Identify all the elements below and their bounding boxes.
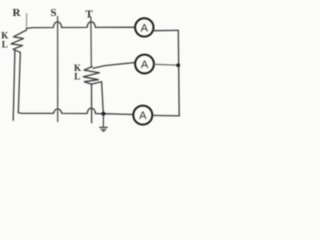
svg-text:S: S xyxy=(50,7,56,19)
wire A1 right to bus xyxy=(153,29,179,31)
ammeter A1 xyxy=(135,18,153,36)
wire CT2 K lead to ammeter A2 xyxy=(93,63,135,69)
wire T phase vertical lower (dangling) xyxy=(91,84,93,123)
ammeter A3 xyxy=(133,106,152,125)
wire CT1 left lead going down (dangling) xyxy=(13,50,15,120)
svg-text:A: A xyxy=(141,22,149,34)
node junction dot on bus at A2 xyxy=(176,63,180,67)
ammeter A2 xyxy=(135,55,154,74)
svg-text:L: L xyxy=(2,40,8,50)
wire S phase vertical xyxy=(57,17,59,122)
svg-text:T: T xyxy=(85,9,93,21)
wire T phase vertical upper xyxy=(90,17,92,67)
wire right bus vertical xyxy=(177,30,180,116)
svg-text:L: L xyxy=(74,71,80,81)
ground symbol xyxy=(100,114,108,131)
svg-text:A: A xyxy=(141,59,149,71)
wire R phase top vertical xyxy=(26,14,28,31)
wire CT2 L lead down to ground junction xyxy=(91,82,103,114)
current transformer CT2 secondary winding (zigzag) xyxy=(83,67,99,85)
svg-text:R: R xyxy=(13,7,22,19)
wire A3 right to bus xyxy=(153,114,180,117)
wire CT1 right lead down to bottom common wire xyxy=(18,52,20,112)
wire A2 right to bus xyxy=(154,63,178,66)
current transformer CT1 secondary winding (zigzag) xyxy=(11,30,27,52)
wire bottom common (hops over S and T, to ammeter A3) xyxy=(18,108,133,114)
svg-text:A: A xyxy=(139,110,147,122)
wire CT1 K lead to ammeter A1 (hops over S and T) xyxy=(27,22,136,29)
node junction dot at ground tap xyxy=(101,112,105,116)
